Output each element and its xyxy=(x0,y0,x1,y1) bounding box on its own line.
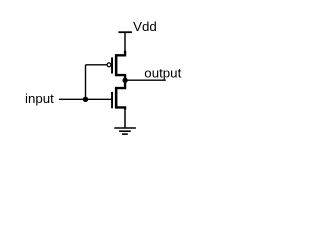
wire output xyxy=(125,79,166,81)
svg-text:output: output xyxy=(144,65,181,80)
transistor M2 NMOS drain lead xyxy=(116,80,125,88)
wire Vdd to M1 source xyxy=(124,32,126,51)
transistor M2 NMOS channel bar xyxy=(115,87,118,109)
wire to PMOS gate bubble xyxy=(86,64,108,66)
node output junction dot xyxy=(122,78,127,83)
node input junction dot xyxy=(83,97,88,102)
transistor M1 PMOS source lead xyxy=(116,51,125,56)
transistor M1 PMOS drain lead xyxy=(116,75,125,80)
svg-text:input: input xyxy=(25,91,54,106)
transistor M1 PMOS gate bar xyxy=(111,57,113,73)
wire input junction up xyxy=(85,65,87,100)
node Vdd power bar xyxy=(118,31,131,33)
transistor M1 PMOS channel bar xyxy=(115,54,118,76)
transistor M1 PMOS gate bubble xyxy=(107,63,111,67)
svg-text:Vdd: Vdd xyxy=(133,19,157,34)
wire input horizontal xyxy=(59,98,113,100)
wire M2 source to ground xyxy=(124,109,126,128)
transistor M2 NMOS gate bar xyxy=(111,92,113,108)
ground xyxy=(114,128,136,134)
transistor M2 NMOS source lead xyxy=(116,107,125,109)
